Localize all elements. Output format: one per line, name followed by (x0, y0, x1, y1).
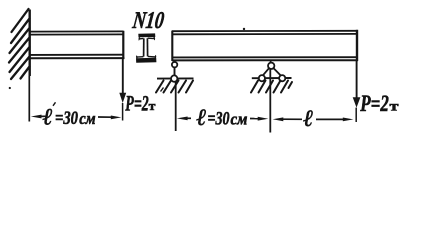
svg-text:N10: N10 (131, 8, 166, 34)
small tick above l (53, 102, 56, 106)
I-beam section symbol (136, 33, 156, 62)
svg-text:=30: =30 (55, 108, 78, 129)
left support ground hatching (156, 81, 193, 93)
stray mark near left P label (161, 88, 164, 92)
stray speck left margin (9, 87, 11, 89)
dimension l (right) (273, 106, 354, 132)
wall line / left extension line (29, 10, 31, 77)
dimension l=30cm (middle) (177, 105, 268, 131)
svg-text:P=2: P=2 (125, 90, 149, 115)
dimension l=30cm (left) (31, 102, 122, 130)
extension line below left support (175, 82, 177, 131)
stray speck above right beam (243, 28, 245, 30)
wall hatching (9, 9, 30, 79)
I-beam top flange (138, 33, 155, 37)
overhanging beam (right) (172, 30, 358, 61)
force P (left), arrow down (122, 59, 124, 94)
I-beam web (143, 38, 145, 56)
left support (pin with link) (157, 61, 194, 82)
svg-text:P=2: P=2 (360, 91, 389, 116)
force P (right), arrow down (356, 61, 358, 98)
svg-text:т: т (149, 98, 156, 113)
svg-text:ℓ: ℓ (43, 105, 53, 131)
middle support (roller triangle) (252, 61, 292, 81)
svg-text:=30: =30 (208, 108, 230, 129)
svg-text:т: т (390, 100, 399, 115)
svg-text:ℓ: ℓ (303, 106, 313, 132)
cantilever beam (left) (30, 31, 125, 59)
svg-text:см: см (231, 110, 248, 129)
middle support ground hatching (251, 81, 292, 93)
extension line below middle support (269, 69, 271, 133)
svg-text:ℓ: ℓ (196, 105, 206, 131)
svg-text:см: см (79, 109, 96, 128)
I-beam bottom flange (136, 58, 156, 63)
